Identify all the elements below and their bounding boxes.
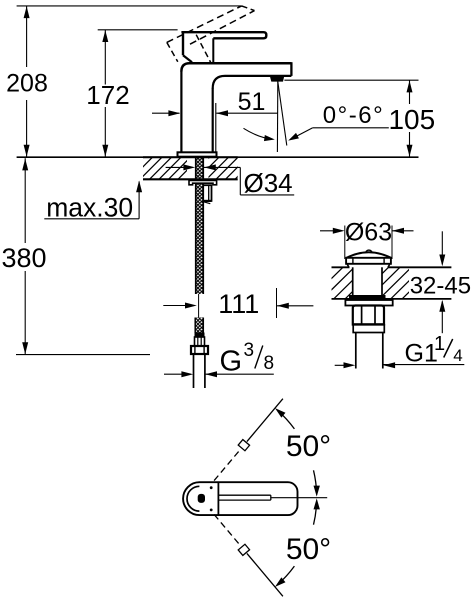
threaded mounting shank with knurl texture	[196, 156, 204, 294]
svg-text:G: G	[220, 346, 243, 378]
centerline right of top view	[271, 497, 327, 499]
mounting washer under countertop	[189, 180, 217, 184]
dimension 105 with arrows and label	[284, 80, 435, 157]
push-open drain plug cap	[346, 250, 391, 267]
hose break thin centerline	[198, 294, 200, 318]
basin deck cross-section at drain with hatching	[300, 267, 452, 299]
svg-text:105: 105	[388, 104, 435, 135]
hose hex connector nut	[191, 346, 208, 354]
aerator (mousseur) at spout outlet	[270, 76, 285, 82]
hose crimp sleeve	[195, 333, 205, 347]
dimension 172 extension line at handle top	[98, 29, 178, 31]
svg-text:3: 3	[244, 340, 255, 361]
label max.30 with leader arrow	[44, 181, 142, 223]
svg-text:G1: G1	[405, 340, 438, 368]
faucet top view (plan) outline	[183, 482, 297, 515]
cartridge hole (top view)	[198, 494, 205, 503]
svg-text:1: 1	[434, 333, 445, 355]
countertop cross-section with hatching	[121, 157, 257, 179]
svg-text:32-45: 32-45	[410, 273, 471, 300]
drain collar ring	[353, 325, 384, 333]
dimension 208 top extension line	[17, 5, 242, 7]
svg-text:Ø34: Ø34	[244, 168, 293, 198]
flexible supply hose (braided)	[195, 318, 203, 334]
faucet body and spout outline	[181, 62, 291, 152]
drain locking hex nut	[353, 306, 384, 325]
lower 50-degree swivel ray (dashed handle position)	[214, 514, 283, 596]
dimension 380 with arrows, label and bottom extension	[1, 158, 150, 354]
screw dot lower	[210, 509, 213, 512]
label G1 1/4 with arrows	[335, 333, 465, 368]
dimension 172 vertical with arrows and label	[86, 30, 129, 157]
svg-text:380: 380	[1, 243, 46, 273]
dimension 32-45 deck thickness	[410, 231, 471, 333]
drain body through deck	[349, 267, 386, 299]
countertop top line (extends to both dimension chains)	[17, 156, 419, 158]
upper 50-degree arc with arrows and label	[273, 406, 331, 497]
svg-text:50°: 50°	[286, 430, 331, 463]
drain tailpiece G1 1/4	[356, 333, 383, 369]
faucet base plate	[178, 152, 217, 156]
upper 50-degree swivel ray (dashed handle position)	[214, 399, 283, 481]
svg-text:max.30: max.30	[46, 192, 133, 222]
svg-text:0°-6°: 0°-6°	[323, 102, 384, 129]
water stream angle lines 0 and 6 degrees	[277, 82, 286, 152]
lower 50-degree arc with arrows and label	[273, 498, 331, 589]
svg-text:4: 4	[453, 346, 462, 365]
dimension diameter 63 with arrows and label	[320, 218, 414, 259]
svg-text:208: 208	[6, 70, 48, 98]
drain washer	[345, 300, 392, 306]
label G 3/8 with arrows	[164, 340, 274, 378]
G3/8 connection tube	[194, 354, 205, 388]
svg-text:172: 172	[86, 80, 129, 110]
dimension 111 with arrows and label	[163, 288, 313, 319]
svg-text:8: 8	[264, 353, 275, 374]
angle label 0-6 degrees with leaders	[244, 102, 389, 143]
svg-text:51: 51	[238, 88, 266, 116]
svg-text:Ø63: Ø63	[345, 218, 392, 246]
svg-text:111: 111	[218, 289, 259, 319]
faucet lever handle raised position (dashed)	[167, 6, 255, 63]
svg-text:50°: 50°	[286, 533, 331, 566]
screw dot upper	[210, 486, 213, 489]
dimension 208 vertical with arrows and label	[6, 6, 48, 157]
faucet lever handle (horizontal position)	[181, 32, 266, 63]
fastening nut on shank	[203, 185, 211, 204]
dimension 51 with arrows and label	[152, 88, 278, 152]
label diameter 34 with arrows	[166, 164, 295, 198]
